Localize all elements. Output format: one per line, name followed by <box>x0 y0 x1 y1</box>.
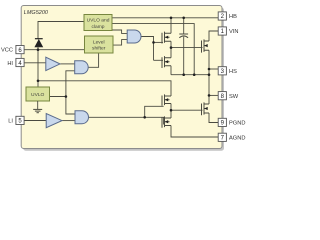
pin 9 box <box>218 118 226 126</box>
svg-text:HB: HB <box>229 14 237 20</box>
wire buffer U2 out to AND U4 <box>60 63 75 65</box>
transistor Q1 (HS driver top) <box>162 32 171 44</box>
wire to Q2 gate <box>154 59 164 61</box>
block UVLO <box>26 87 50 101</box>
pin 6 box <box>16 46 24 54</box>
svg-text:HS: HS <box>229 69 237 75</box>
pin 5 box <box>16 116 24 124</box>
wire Q5 drain to VIN pin 1 <box>209 31 218 41</box>
wire AND U6 out to node C <box>89 116 145 118</box>
wire clamp block to AND U3 top input <box>112 30 127 33</box>
junction dot HS rail SW <box>208 73 211 76</box>
ground symbol <box>33 101 42 113</box>
wire diode cathode up to clamp block <box>38 22 84 39</box>
svg-text:LMG5200: LMG5200 <box>24 10 49 16</box>
capacitor C1 <box>179 34 188 38</box>
wire node A down to UVLO <box>37 50 39 87</box>
wire LI pin5 to buffer <box>24 120 46 122</box>
svg-text:UVLO: UVLO <box>31 92 45 98</box>
transistor Q5 (HS GaN FET) <box>202 39 210 52</box>
wire HS rail <box>171 74 209 76</box>
wire HS rail to pin 3 <box>209 68 218 70</box>
wire cap C1 bottom <box>183 37 185 75</box>
wire AND U3 out to HS driver gates <box>141 37 154 61</box>
wire SW to pin 8 <box>209 94 218 96</box>
wire node C up to Q3 gate <box>145 106 164 117</box>
wire AND U4 out to level shifter <box>88 53 98 67</box>
wire node C to Q4 gate <box>145 117 164 124</box>
chip body U1 LMG5200 <box>21 6 222 149</box>
svg-text:shifter: shifter <box>92 46 106 52</box>
junction dot HS gates <box>152 41 155 44</box>
pin 7 box <box>218 133 226 141</box>
node VCC rail junction dot <box>37 80 40 83</box>
junction dot HB rail cap <box>182 17 185 20</box>
svg-text:Level: Level <box>93 39 105 45</box>
svg-text:clamp: clamp <box>91 24 104 30</box>
transistor Q4 (LS driver bottom) <box>162 116 171 127</box>
node C junction dot <box>143 116 146 119</box>
wire Q6 source to PGND pin 9 <box>209 113 218 123</box>
node A junction dot <box>37 48 40 51</box>
svg-text:PGND: PGND <box>229 121 245 127</box>
junction dot HS rail cap <box>182 73 185 76</box>
pin 4 box <box>16 58 24 67</box>
diode D1 <box>35 39 43 47</box>
junction dot HS pin tap <box>208 68 211 71</box>
wire node B up to AND U4 <box>66 71 75 97</box>
buffer U2 (HI) <box>46 57 60 70</box>
junction dot HB rail Q1 <box>170 17 173 20</box>
junction dot LS driver out <box>170 109 173 112</box>
wire Q4 source to AGND pin 7 <box>171 126 218 138</box>
transistor Q2 (HS driver bottom) <box>162 56 171 68</box>
node B junction dot <box>65 95 68 98</box>
wire HI pin4 to buffer <box>24 62 46 64</box>
wire VCC pin6 to node A <box>24 49 84 51</box>
wire VCC rail to low-side driver <box>38 81 171 96</box>
transistor Q3 (LS driver top) <box>162 94 171 105</box>
transistor Q6 (LS GaN FET) <box>202 102 210 115</box>
wire Q1 source to Q2 drain <box>170 41 172 58</box>
pin 1 box <box>218 27 226 35</box>
wire clamp block to HS rail <box>112 24 194 75</box>
svg-text:HI: HI <box>7 61 13 67</box>
AND gate U3 (high side) <box>127 30 141 43</box>
wire diode anode <box>37 47 39 50</box>
wire Q2 source to HS rail <box>170 66 172 75</box>
svg-text:SW: SW <box>229 94 239 100</box>
wire Q1 drain to HB rail <box>170 18 172 33</box>
AND gate U4 (HI and UVLO) <box>75 61 89 74</box>
wire UVLO out node B <box>50 96 66 98</box>
AND gate U6 (LI and UVLO) <box>75 111 89 124</box>
pin 8 box <box>218 92 226 100</box>
svg-text:VCC: VCC <box>1 48 13 54</box>
wire to Q1 gate <box>154 41 164 43</box>
wire SW net Q5 source to Q6 drain <box>208 50 210 104</box>
block UVLO and clamp <box>84 15 112 31</box>
wire buffer U5 out to AND U6 <box>62 120 75 122</box>
pin 3 box <box>218 67 226 75</box>
pin 2 box <box>218 12 226 20</box>
wire Q3 source to Q4 drain <box>170 104 172 119</box>
block Level shifter <box>85 36 114 53</box>
wire node B down to AND U6 <box>66 97 75 115</box>
wire LS driver out to Q6 gate <box>171 109 203 111</box>
chip shadow <box>23 8 224 151</box>
svg-text:LI: LI <box>8 119 13 125</box>
wire level shifter to AND U3 <box>113 40 127 46</box>
svg-text:UVLO and: UVLO and <box>87 18 110 24</box>
junction dot HS rail clamp <box>193 73 196 76</box>
svg-text:VIN: VIN <box>229 29 238 35</box>
junction dot HS driver out <box>170 46 173 49</box>
junction dot SW pin tap <box>208 94 211 97</box>
svg-text:AGND: AGND <box>229 136 245 142</box>
buffer U5 (LI) <box>46 114 62 128</box>
wire cap C1 top <box>183 18 185 34</box>
wire HB rail to pin 2 <box>112 17 218 19</box>
wire HS driver out to Q5 gate <box>171 47 203 49</box>
